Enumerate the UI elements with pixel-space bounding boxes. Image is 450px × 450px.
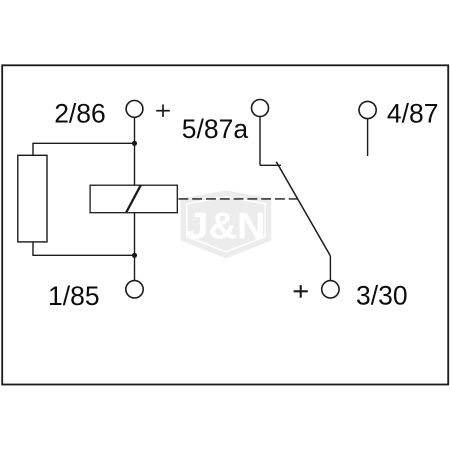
junction node bottom (132, 253, 137, 258)
wire from 2/86 terminal down to junction (134, 117, 136, 143)
svg-text:1/85: 1/85 (48, 281, 100, 311)
terminal circle 2/86 (126, 101, 143, 118)
watermark logo J&N badge (184, 194, 269, 256)
svg-text:5/87a: 5/87a (182, 114, 249, 144)
plus sign at 3/30 (294, 285, 308, 298)
terminal circle 1/85 (126, 281, 143, 298)
terminal circle 4/87 (359, 101, 376, 118)
resistor R (coil winding) (18, 155, 47, 242)
svg-text:4/87: 4/87 (387, 98, 439, 128)
junction node top (132, 141, 137, 146)
wire blade end down to 3/30 terminal (329, 256, 331, 280)
wire 5/87a down to switch pivot (259, 117, 261, 166)
wire stub below 4/87 terminal (367, 119, 369, 156)
wire resistor bottom to junction (33, 242, 135, 255)
dashed actuator line from coil to switch (178, 198, 297, 200)
terminal circle 3/30 (322, 281, 339, 298)
wire junction down to 1/85 terminal (134, 255, 136, 280)
switch pivot tick (260, 164, 281, 166)
plus sign at 2/86 (156, 104, 170, 117)
switch blade S (276, 162, 330, 256)
svg-text:2/86: 2/86 (54, 98, 106, 128)
terminal circle 5/87a (252, 100, 269, 117)
wire junction down to relay coil box (134, 143, 136, 185)
svg-text:J&N: J&N (187, 206, 266, 247)
relay coil K1 box (90, 185, 177, 213)
relay coil diagonal (126, 185, 141, 212)
wire coil box bottom to junction (134, 213, 136, 256)
svg-text:3/30: 3/30 (356, 281, 408, 311)
wire top horizontal to resistor (33, 143, 135, 155)
